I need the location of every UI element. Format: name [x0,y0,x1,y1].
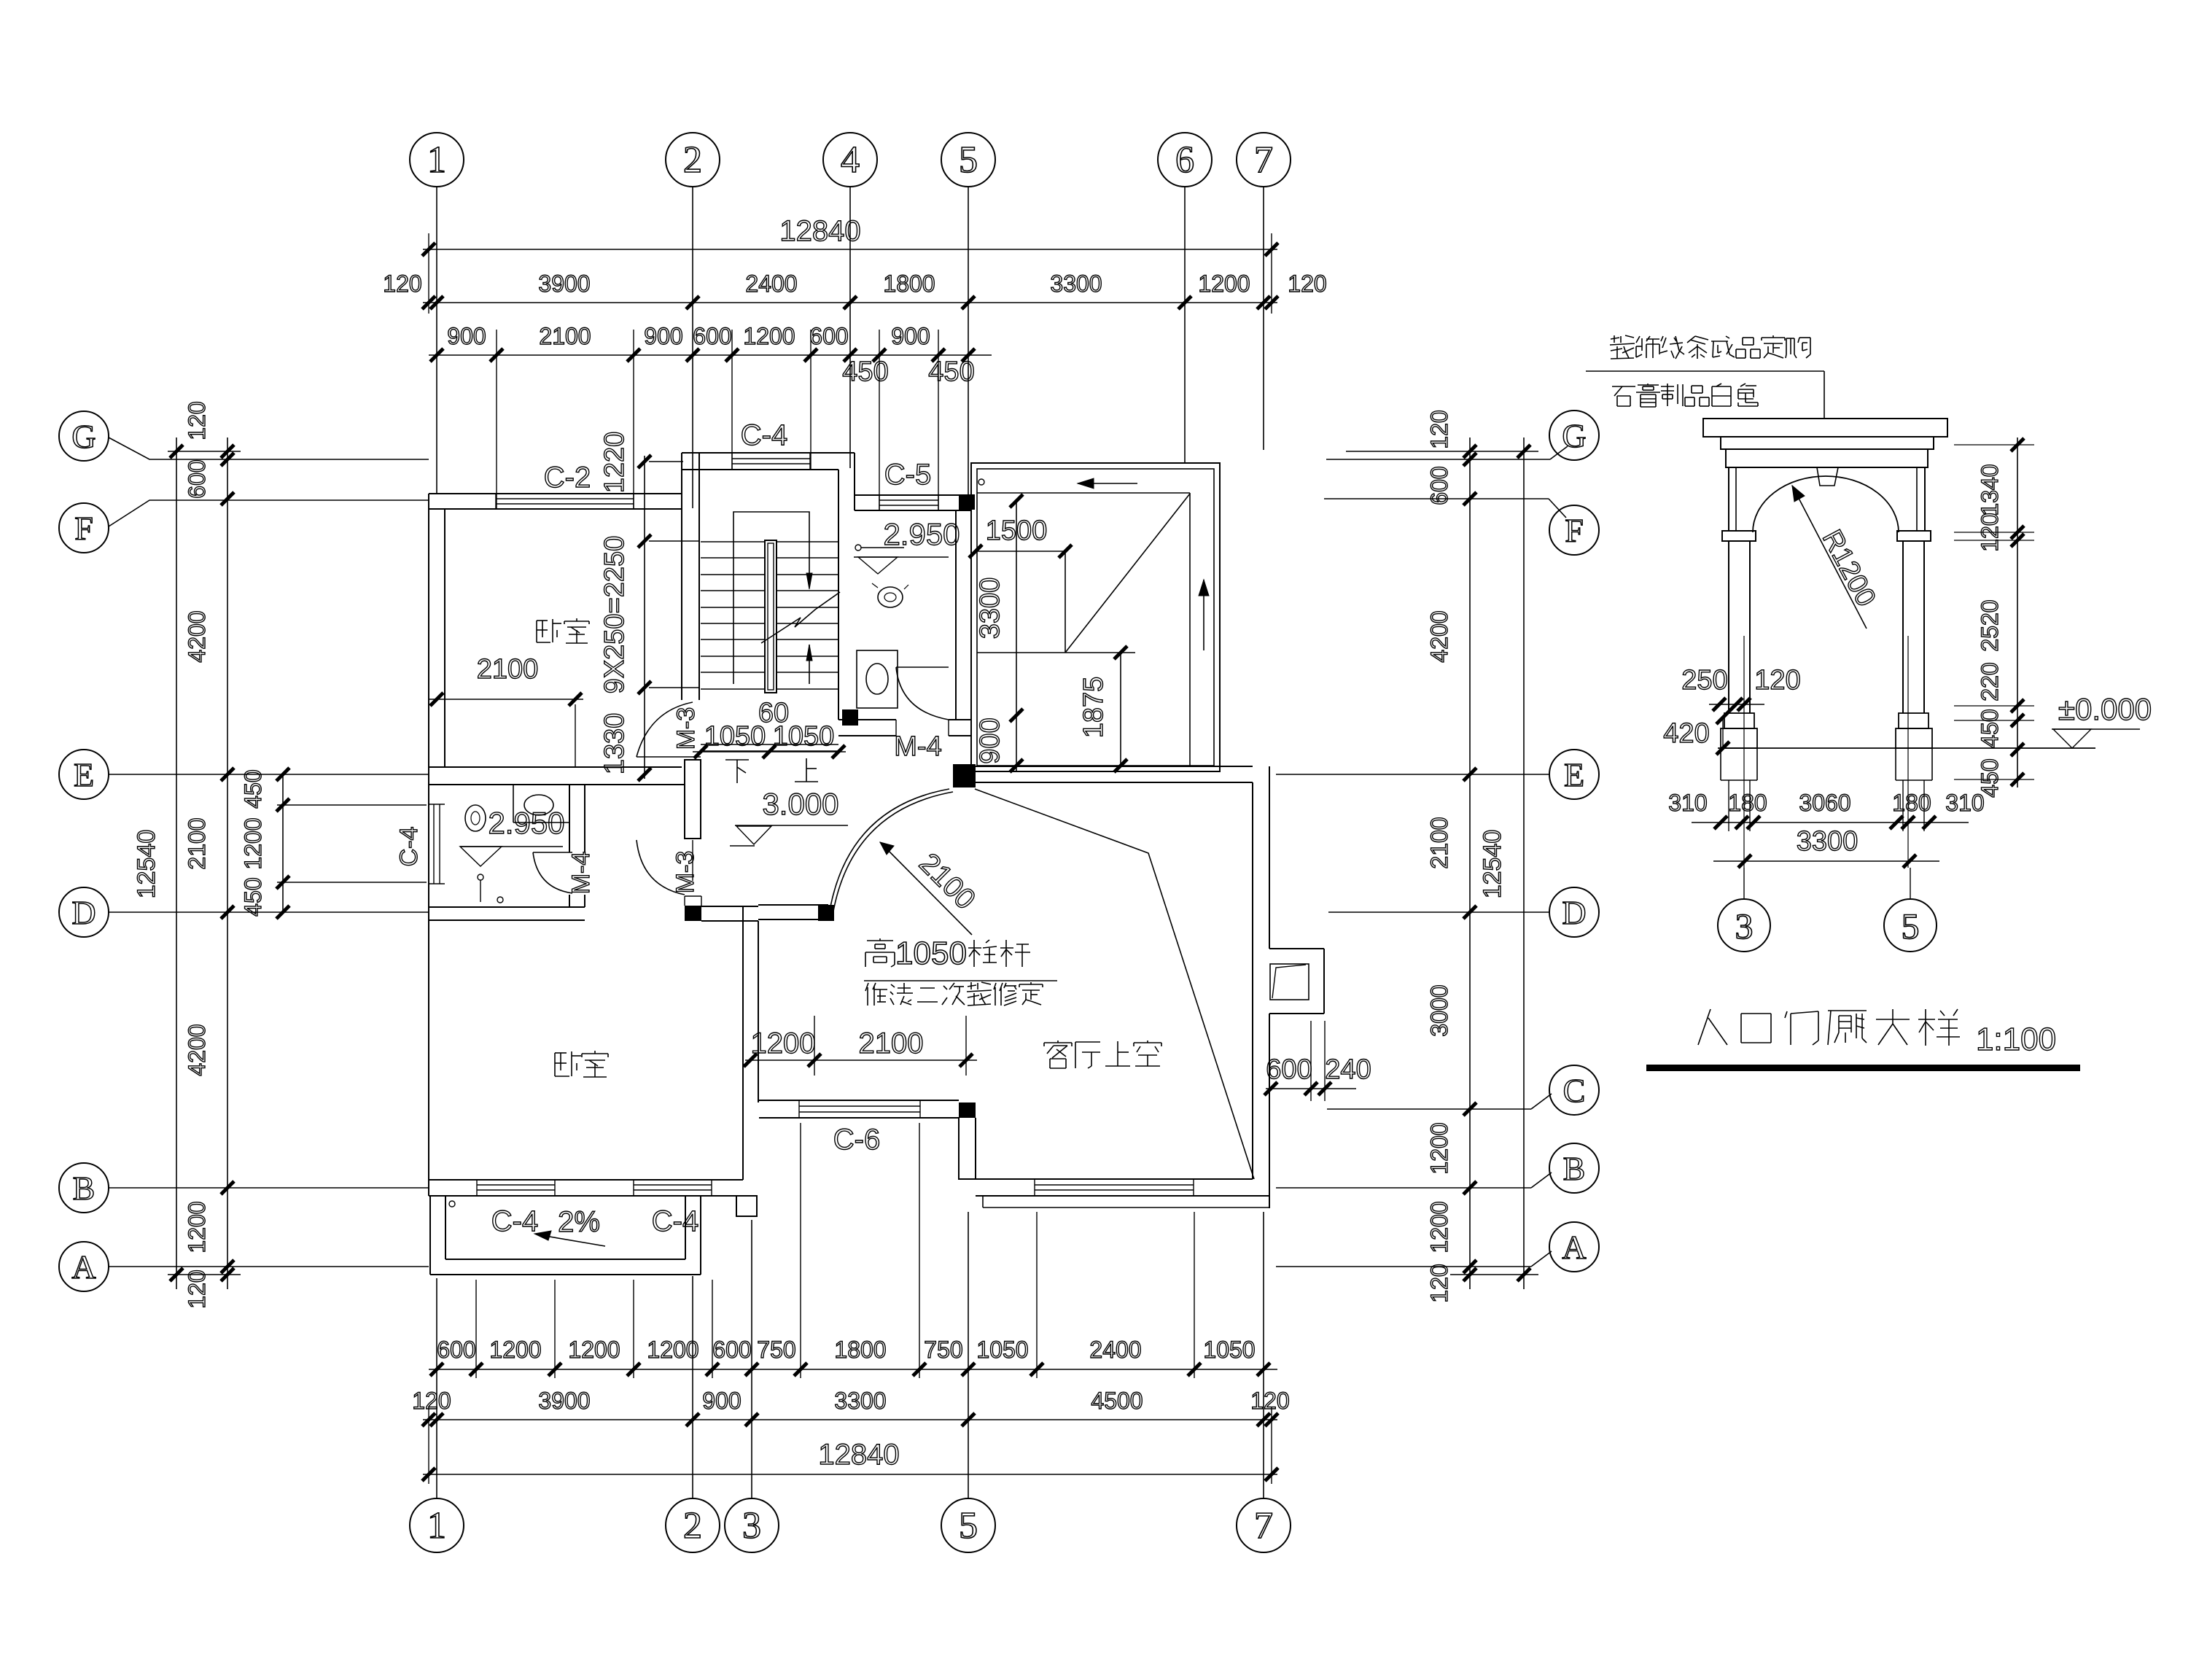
terrace outer walls [971,463,1220,771]
svg-text:1050: 1050 [704,721,766,752]
svg-text:12540: 12540 [133,830,160,899]
svg-text:4200: 4200 [1426,610,1452,662]
svg-text:12840: 12840 [779,215,860,247]
svg-text:±0.000: ±0.000 [2058,692,2152,726]
terrace drain arrow left [1078,483,1137,484]
svg-text:310: 310 [1668,790,1707,816]
terrace dim 3300/900 [1016,501,1017,771]
detail: cornice [1703,419,1947,437]
bottom grid circles 1 2 3 5 7 [410,1498,464,1552]
svg-text:1200: 1200 [489,1337,541,1363]
svg-text:600: 600 [184,459,210,498]
svg-text:5: 5 [959,139,978,181]
svg-text:1200: 1200 [647,1337,698,1363]
toilet upper bath [878,587,903,607]
svg-text:600: 600 [1426,466,1452,505]
svg-text:3300: 3300 [1797,826,1859,857]
svg-text:2: 2 [683,1505,702,1547]
detail: capitals [1722,531,1756,541]
texts down/up [725,759,749,761]
terrace drain arrow right [1203,580,1204,650]
svg-text:M-4: M-4 [567,852,595,895]
column grid5 x C [959,1102,976,1118]
column grid4 bath corner [842,709,858,726]
svg-text:1200: 1200 [184,1201,210,1253]
terrace slope diagonal [1065,494,1190,653]
left dim chain line [227,437,228,1289]
svg-text:1200: 1200 [743,323,795,349]
svg-text:1200: 1200 [751,1027,816,1059]
svg-text:900: 900 [644,323,682,349]
column grid2 x D [685,906,701,921]
svg-text:M-3: M-3 [672,851,699,894]
bedroom1 label [536,621,537,642]
svg-text:2400: 2400 [745,271,797,297]
svg-text:B: B [73,1170,96,1207]
C-4 window left wall [429,804,445,805]
svg-text:600: 600 [1266,1054,1312,1085]
dim 1200 2100 interior [745,1059,977,1061]
stair break line [761,592,840,643]
bottom dim row 12840 [423,1474,1277,1475]
living bottom wall with window [959,1178,1253,1180]
svg-text:600: 600 [809,323,848,349]
railing note text [879,938,881,941]
svg-text:C-6: C-6 [833,1124,880,1156]
svg-text:120: 120 [383,271,421,297]
svg-text:6: 6 [1175,139,1194,181]
svg-text:450: 450 [240,877,266,916]
svg-text:D: D [71,894,96,931]
svg-text:900: 900 [702,1388,741,1414]
svg-text:9X250=2250: 9X250=2250 [599,536,630,694]
svg-text:C-4: C-4 [652,1205,698,1237]
svg-text:120: 120 [184,1269,210,1308]
svg-text:900: 900 [891,323,930,349]
svg-text:1050: 1050 [895,936,967,971]
svg-text:3900: 3900 [538,271,590,297]
column grid5 x E [953,764,976,787]
top dim row 12840 [423,249,1277,250]
left grid circles G F E D B A [59,411,109,461]
svg-text:2100: 2100 [477,654,539,685]
detail: column centerlines [1743,636,1745,868]
svg-text:E: E [74,756,94,793]
detail: circles 3 and 5 [1718,899,1770,952]
lower bath toilet [465,805,486,831]
detail: note text line2 [1612,386,1635,387]
svg-text:3: 3 [742,1505,761,1547]
living room label [1057,1041,1059,1043]
lower bath walls [569,785,570,852]
detail: arch [1753,476,1899,532]
bedroom2 label [554,1053,556,1076]
svg-text:1: 1 [427,139,446,181]
svg-text:1220: 1220 [599,432,630,494]
svg-text:G: G [1562,417,1586,454]
svg-text:12540: 12540 [1479,830,1506,899]
svg-text:120: 120 [1250,1388,1289,1414]
bottom dim row A small chain [429,1369,1277,1370]
svg-text:450: 450 [928,357,974,387]
svg-text:5: 5 [959,1505,978,1547]
svg-text:4: 4 [841,139,860,181]
svg-text:C-4: C-4 [741,419,787,451]
svg-text:220: 220 [1977,662,2003,701]
door M-4 upper [896,666,949,668]
svg-text:7: 7 [1254,139,1273,181]
dim 1220 / 9X250=2250 / 1330 line [644,456,645,779]
svg-text:1800: 1800 [834,1337,886,1363]
svg-text:3000: 3000 [1426,984,1452,1036]
bedroom1 bottom wall / corridor north band [429,766,682,768]
stair block outer walls [681,453,682,700]
svg-text:180: 180 [1728,790,1767,816]
stairs treads [701,541,838,542]
svg-text:C-5: C-5 [884,459,931,491]
svg-text:C-2: C-2 [544,462,591,494]
svg-text:180: 180 [1892,790,1931,816]
top grid circles 1 2 4 5 6 7 [410,133,464,187]
svg-text:1200: 1200 [1198,271,1250,297]
void diagonal line [975,789,1254,1179]
detail: ground line [1718,747,2095,749]
dim 600/240 right [1266,1088,1356,1089]
svg-text:1050: 1050 [1203,1337,1255,1363]
corridor pier and door M-3 south [685,760,701,839]
svg-text:2100: 2100 [859,1027,924,1059]
svg-text:310: 310 [1945,790,1984,816]
hall west wall to C-6 [742,906,744,1180]
svg-text:120: 120 [412,1388,451,1414]
radius dim 2100 of railing [880,842,972,935]
detail: bottom dim row1 310/180/3060/180/310 [1692,822,1969,823]
C-4 window stair top [731,453,733,470]
svg-text:3300: 3300 [834,1388,886,1414]
svg-text:450: 450 [1977,709,2003,747]
svg-text:A: A [1562,1229,1586,1266]
stair walk line with arrows [733,512,809,684]
svg-text:4500: 4500 [1091,1388,1143,1414]
svg-text:4200: 4200 [184,1024,210,1076]
column at railing end [818,905,834,921]
svg-text:5: 5 [1902,906,1920,946]
svg-text:C: C [1563,1072,1586,1109]
svg-text:4200: 4200 [184,610,210,662]
top dim row 120/3900/2400/1800/3300/1200/120 [423,302,1277,303]
svg-text:2400: 2400 [1089,1337,1141,1363]
bath right wall [955,510,957,720]
corridor south wall [701,906,758,907]
detail: R1200 radius [1792,486,1867,629]
svg-text:750: 750 [757,1337,795,1363]
bedroom1 left outer wall [428,494,429,1196]
svg-text:120: 120 [1426,1264,1452,1302]
svg-text:3300: 3300 [1050,271,1102,297]
detail: bottom dim row2 3300 [1713,860,1939,862]
svg-text:1340: 1340 [1977,464,2003,516]
top dim row 900/2100/900/600/1200/600/450/900/450 [429,354,992,356]
svg-text:1200: 1200 [240,817,266,869]
svg-text:2100: 2100 [539,323,591,349]
svg-text:M-4: M-4 [894,731,941,762]
stair rail [765,540,777,693]
svg-text:2100: 2100 [184,817,210,869]
right dim chain [1469,437,1471,1289]
detail: keystone [1817,467,1838,486]
svg-text:60: 60 [758,698,789,728]
svg-text:450: 450 [240,769,266,808]
svg-text:A: A [71,1248,96,1286]
svg-text:2%: 2% [558,1206,600,1238]
svg-text:2520: 2520 [1977,599,2003,651]
svg-text:E: E [1564,756,1584,793]
svg-text:12840: 12840 [818,1439,899,1471]
svg-text:F: F [1565,512,1584,549]
railing arc to column [828,789,949,919]
svg-text:750: 750 [924,1337,962,1363]
svg-text:3.000: 3.000 [762,787,838,821]
svg-text:1200: 1200 [1426,1201,1452,1253]
right grid circles G F E D C B A [1549,411,1599,460]
detail: column shafts [1728,541,1729,713]
chimney box [1269,948,1324,949]
svg-text:600: 600 [712,1337,751,1363]
detail: title [1698,1009,1710,1045]
left overall dim 12540 [176,437,177,1289]
balcony [429,1196,431,1275]
svg-text:450: 450 [842,357,888,387]
left sub-chain 450/1200/450 [282,774,284,912]
bedroom2 bottom wall with two C-4 windows [429,1179,743,1181]
C-6 wall and window [759,1100,959,1101]
svg-text:3900: 3900 [538,1388,590,1414]
svg-text:3: 3 [1735,906,1754,946]
detail: note text line1 [1614,335,1615,343]
svg-text:2.950: 2.950 [488,806,564,840]
svg-text:240: 240 [1325,1054,1371,1085]
bedroom1 interior dim 2100 [429,699,583,700]
svg-text:1: 1 [427,1505,446,1547]
right grid leader lines [1550,446,1568,459]
door M-4 lower [533,852,572,853]
void railing wall [758,904,828,906]
column grid5 x F [959,494,975,510]
svg-text:120: 120 [1754,665,1800,696]
detail: column bases [1724,713,1754,728]
washbasin counter upper bath [857,650,898,708]
svg-text:1200: 1200 [1426,1122,1452,1174]
svg-text:G: G [71,418,96,455]
top dim extension lines [428,233,429,314]
balcony slope arrow [541,1235,605,1246]
svg-text:1050: 1050 [976,1337,1028,1363]
svg-text:1:100: 1:100 [1976,1022,2056,1057]
svg-text:600: 600 [437,1337,475,1363]
svg-text:420: 420 [1663,718,1709,749]
bottom dim row B [423,1419,1277,1420]
svg-text:C-4: C-4 [491,1205,538,1237]
svg-text:900: 900 [975,717,1005,763]
stair bottom dim 1050/60/1050 [693,751,846,752]
lower bath level symbol [460,846,563,847]
living left wall below C-6 [958,1118,960,1180]
right overall dim 12540 [1523,437,1525,1289]
bath bottom wall with door M-4 [838,719,896,720]
svg-text:1200: 1200 [568,1337,620,1363]
svg-text:3060: 3060 [1799,790,1850,816]
svg-text:900: 900 [447,323,486,349]
left grid leader lines [109,437,429,459]
svg-text:3300: 3300 [975,577,1005,639]
living top wall (E line) [976,766,1253,767]
svg-text:120: 120 [1426,410,1452,448]
svg-text:1800: 1800 [883,271,935,297]
svg-text:C-4: C-4 [395,827,423,867]
svg-text:120: 120 [184,401,210,440]
bottom extension lines [475,1280,477,1378]
lower bath partition [513,785,514,822]
detail: right chain dims [2017,437,2018,787]
terrace dim 1875 [1120,653,1121,766]
svg-text:F: F [74,510,93,547]
bedroom1 top wall with window C-2 [429,493,682,494]
detail: arch frame [1728,467,1729,531]
svg-text:D: D [1562,894,1586,931]
svg-text:250: 250 [1681,665,1727,696]
door M-3 stair west [637,756,701,758]
bath top wall with window C-5 [855,494,971,496]
living right wall with chimney [1252,782,1253,1179]
svg-text:2.950: 2.950 [883,517,960,551]
step pier between bedroom and living [736,1196,757,1216]
svg-text:1330: 1330 [599,713,630,775]
svg-text:600: 600 [693,323,731,349]
terrace dim 1500 [976,551,1065,552]
svg-text:2100: 2100 [1426,817,1452,868]
svg-text:7: 7 [1254,1505,1273,1547]
svg-text:B: B [1563,1150,1586,1187]
svg-text:1875: 1875 [1078,677,1109,739]
svg-text:2: 2 [683,139,702,181]
top grid lines [436,187,437,494]
svg-text:120: 120 [1288,271,1326,297]
svg-text:M-3: M-3 [672,707,700,750]
